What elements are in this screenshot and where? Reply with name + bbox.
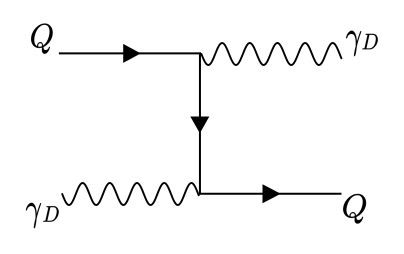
label Q (top left, incoming quark) [31,24,52,54]
label gamma_D (top right): subscript D [362,34,377,49]
arrow on internal propagator (downward) [190,117,209,134]
arrow on top fermion line (rightward) [123,44,141,63]
label gamma_D (top right): gamma [346,31,361,56]
label Q (bottom right, outgoing quark) [343,194,366,224]
photon line: incoming dark photon gamma_D (bottom left, wavy) [62,183,199,205]
label gamma_D (bottom left): subscript D [43,206,58,221]
photon line: outgoing dark photon gamma_D (top right, wavy) [201,43,341,65]
wire: internal quark propagator (vertical) [199,52,201,194]
arrow on bottom fermion line (rightward) [263,184,281,203]
label gamma_D (bottom left): gamma [26,203,41,228]
wire: incoming quark line (top fermion propagator) [59,52,201,54]
wire: outgoing quark line (bottom fermion propagator) [199,193,342,195]
